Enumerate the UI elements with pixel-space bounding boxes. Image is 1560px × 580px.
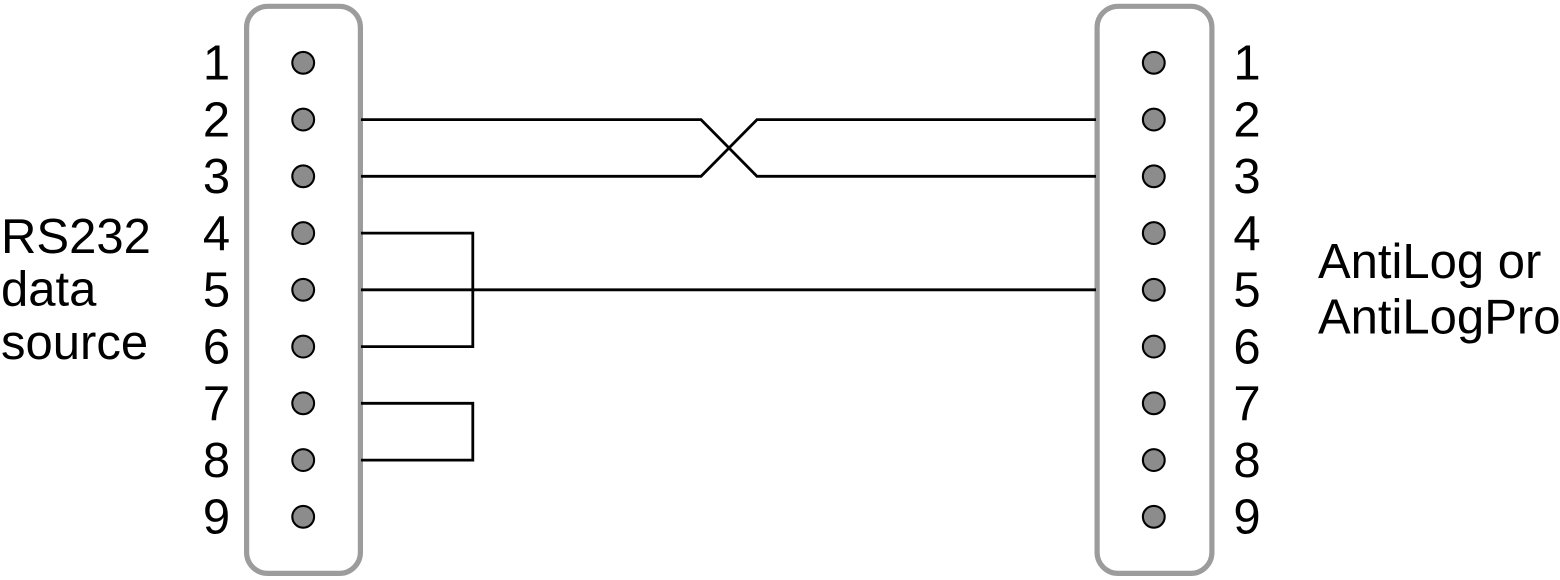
pin J2-9 [1143, 506, 1165, 528]
pin J2-8 [1143, 449, 1165, 471]
jumper J1 pins 4-5-6 [361, 233, 473, 347]
svg-text:7: 7 [203, 377, 230, 431]
pin J2-7 [1143, 392, 1165, 414]
svg-text:6: 6 [203, 321, 230, 375]
svg-text:6: 6 [1233, 321, 1260, 375]
pin J2-4 [1143, 222, 1165, 244]
svg-text:9: 9 [203, 491, 230, 545]
pin J1-5 [292, 279, 314, 301]
pin J1-7 [292, 392, 314, 414]
svg-text:3: 3 [203, 150, 230, 204]
svg-text:data: data [1, 263, 97, 317]
wire J1 pin2 to J2 pin3 (crossover upper-left to lower-right) [361, 120, 1096, 177]
svg-text:source: source [1, 316, 148, 370]
svg-text:RS232: RS232 [1, 210, 151, 264]
svg-text:3: 3 [1233, 150, 1260, 204]
svg-text:4: 4 [203, 207, 230, 261]
pin J2-2 [1143, 109, 1165, 131]
pin J1-8 [292, 449, 314, 471]
svg-text:5: 5 [1233, 264, 1260, 318]
pin J1-6 [292, 336, 314, 358]
pin J1-9 [292, 506, 314, 528]
svg-text:1: 1 [1233, 37, 1260, 91]
wire J1 pin3 to J2 pin2 (crossover lower-left to upper-right) [361, 120, 1096, 177]
pin J2-5 [1143, 279, 1165, 301]
svg-text:7: 7 [1233, 377, 1260, 431]
connector J1 (RS232 data source, left DB9 body) [247, 6, 361, 573]
pin J2-3 [1143, 165, 1165, 187]
svg-text:8: 8 [1233, 434, 1260, 488]
svg-text:4: 4 [1233, 207, 1260, 261]
pin J1-1 [292, 52, 314, 74]
svg-text:9: 9 [1233, 491, 1260, 545]
pin J1-4 [292, 222, 314, 244]
svg-text:5: 5 [203, 264, 230, 318]
connector J2 (AntiLog, right DB9 body) [1097, 6, 1212, 573]
svg-text:2: 2 [203, 94, 230, 148]
pin J1-2 [292, 109, 314, 131]
svg-text:2: 2 [1233, 94, 1260, 148]
svg-text:AntiLogPro: AntiLogPro [1318, 291, 1560, 345]
svg-text:AntiLog or: AntiLog or [1318, 235, 1541, 289]
pin J1-3 [292, 165, 314, 187]
jumper J1 pins 7-8 [361, 403, 473, 460]
svg-text:1: 1 [203, 37, 230, 91]
svg-text:8: 8 [203, 434, 230, 488]
pin J2-6 [1143, 336, 1165, 358]
wire J1 pin5 to J2 pin5 [361, 288, 1096, 291]
pin J2-1 [1143, 52, 1165, 74]
